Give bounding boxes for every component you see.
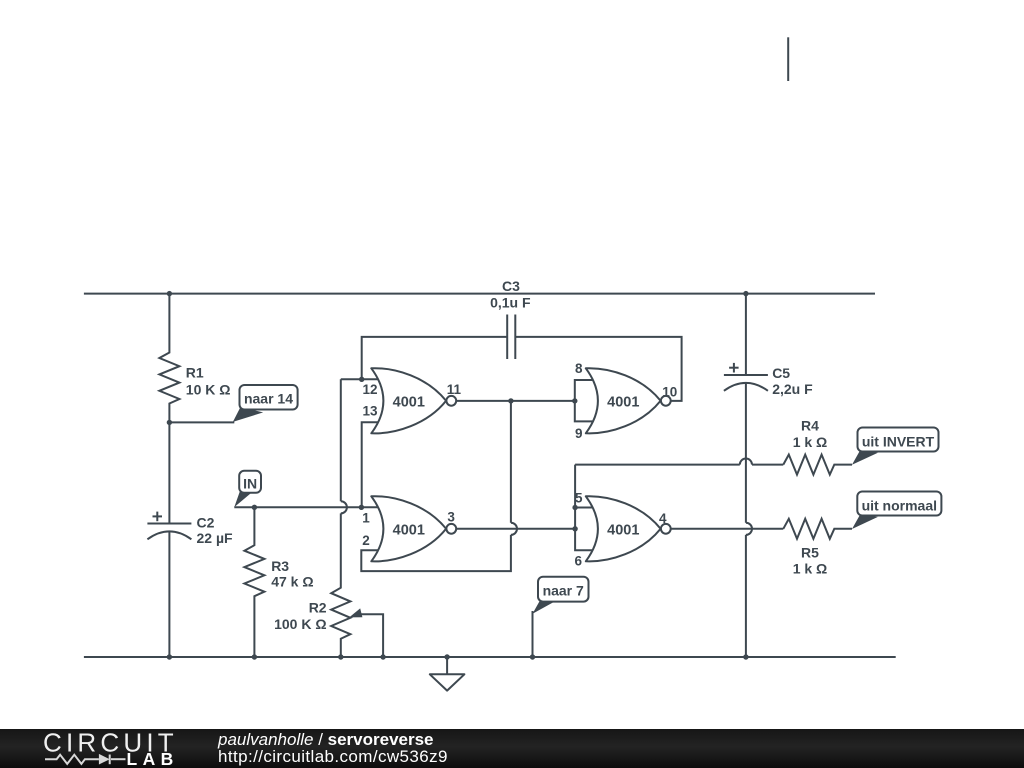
junction IN wire / R3 (252, 505, 257, 510)
svg-text:5: 5 (575, 491, 583, 506)
wire C5 bottom to rail with hop (746, 383, 752, 657)
wire pin 13 to pin 1 junction (362, 422, 378, 507)
svg-text:2: 2 (362, 533, 370, 548)
svg-text:2,2u F: 2,2u F (772, 381, 813, 397)
junction bottom rail / R2 wiper (380, 654, 385, 659)
svg-text:R4: R4 (801, 417, 819, 433)
net flag naar 7 (533, 577, 589, 614)
svg-text:naar 14: naar 14 (244, 391, 293, 407)
svg-text:0,1u F: 0,1u F (490, 295, 531, 311)
svg-text:1 k Ω: 1 k Ω (793, 434, 828, 450)
junction pin 12 / C3 / R2 (359, 377, 364, 382)
svg-text:8: 8 (575, 361, 583, 376)
svg-text:13: 13 (363, 404, 379, 419)
wire IN to gate U1c pin 1 (234, 506, 378, 508)
svg-text:100 K Ω: 100 K Ω (274, 616, 326, 632)
junction bottom rail / C2 (167, 654, 172, 659)
svg-text:uit normaal: uit normaal (862, 497, 937, 513)
svg-text:R1: R1 (186, 364, 204, 380)
capacitor C2 (147, 512, 233, 546)
wire R1 bottom to C2 top (168, 422, 170, 523)
junction IN wire / pin13 wire / pin 1 (359, 505, 364, 510)
svg-text:1: 1 (362, 510, 370, 525)
CircuitLab logo (43, 727, 179, 768)
junction bottom rail / ground symbol (444, 654, 449, 659)
svg-text:6: 6 (575, 554, 583, 569)
wire U1a output down to U1c pin 2 (361, 401, 517, 571)
potentiometer R2 (331, 379, 350, 657)
svg-text:C2: C2 (197, 515, 215, 531)
junction top rail / R1 (167, 291, 172, 296)
resistor R5 (783, 519, 852, 539)
wire C2 bottom to rail (168, 532, 170, 657)
junction U1d pin 5 stub (572, 505, 577, 510)
NOR gate U1d 4001 (pins 5,6,4) (586, 496, 671, 561)
resistor R4 (783, 455, 852, 475)
junction U1d input / U1c output (572, 526, 577, 531)
cursor artifact line top right (787, 37, 789, 81)
capacitor C3 (507, 315, 515, 360)
wire ground bottom rail (84, 656, 896, 658)
resistor R1 (159, 294, 179, 423)
svg-text:LAB: LAB (127, 749, 179, 768)
junction bottom rail / R2 (338, 654, 343, 659)
svg-text:11: 11 (447, 382, 462, 397)
NOR gate U1c 4001 (pins 1,2,3) (371, 496, 456, 561)
svg-text:10 K Ω: 10 K Ω (186, 382, 231, 398)
junction U1a output / feedback down (508, 398, 513, 403)
wire gate U1c output to gate U1d input (456, 528, 575, 530)
svg-text:9: 9 (575, 426, 583, 441)
resistor R3 (244, 507, 264, 657)
junction bottom rail / R3 (252, 654, 257, 659)
junction bottom rail / naar 7 stub (530, 654, 535, 659)
wire C3 right plate to gate U1b output (515, 337, 681, 401)
svg-text:47 k Ω: 47 k Ω (271, 574, 313, 590)
svg-text:R5: R5 (801, 545, 819, 561)
net flag uit INVERT (852, 428, 939, 465)
net flag naar 14 (233, 385, 298, 422)
wire pin 12 node up to C3 left plate (362, 337, 508, 379)
R2 wiper arrow (349, 608, 362, 617)
svg-text:10: 10 (662, 384, 677, 399)
ground (430, 657, 465, 691)
junction U1b input bracket (572, 398, 577, 403)
NOR gate U1b 4001 (pins 8,9,10) (586, 368, 671, 433)
svg-text:R2: R2 (309, 600, 327, 616)
NOR gate U1a 4001 (pins 12,13,11) (371, 368, 456, 433)
svg-text:4: 4 (659, 511, 667, 526)
svg-text:C5: C5 (772, 365, 790, 381)
capacitor C5 (724, 363, 768, 391)
wire pin 12 node horizontal (341, 378, 378, 380)
wire V+ top rail (84, 293, 875, 295)
svg-text:R3: R3 (271, 558, 289, 574)
junction top rail / C5 (743, 291, 748, 296)
net flag uit normaal (852, 492, 941, 530)
svg-text:C3: C3 (502, 278, 520, 294)
wire top rail to C5 (745, 294, 747, 375)
net flag IN (234, 471, 261, 507)
wire R1 bottom to naar 14 flag (169, 421, 234, 423)
svg-text:uit INVERT: uit INVERT (862, 433, 935, 449)
wire U1d feedback row to R4 (575, 459, 783, 465)
wire naar 7 stub (532, 611, 534, 657)
svg-text:12: 12 (363, 382, 378, 397)
wire gate U1a output to gate U1b input (456, 400, 575, 402)
wire R2 wiper to bottom rail (358, 614, 383, 657)
junction bottom rail / C5 (743, 654, 748, 659)
svg-text:22 µF: 22 µF (197, 530, 234, 546)
svg-text:IN: IN (243, 476, 257, 492)
wire gate U1d output to R5 (671, 528, 784, 530)
wire U1b input bracket pins 8-9 (575, 380, 593, 421)
svg-text:1 k Ω: 1 k Ω (793, 561, 828, 577)
svg-text:3: 3 (447, 510, 455, 525)
svg-text:naar 7: naar 7 (543, 582, 584, 598)
wire U1d input bracket pins 5-6 (575, 465, 593, 551)
junction R1 bottom / naar 14 (167, 420, 172, 425)
